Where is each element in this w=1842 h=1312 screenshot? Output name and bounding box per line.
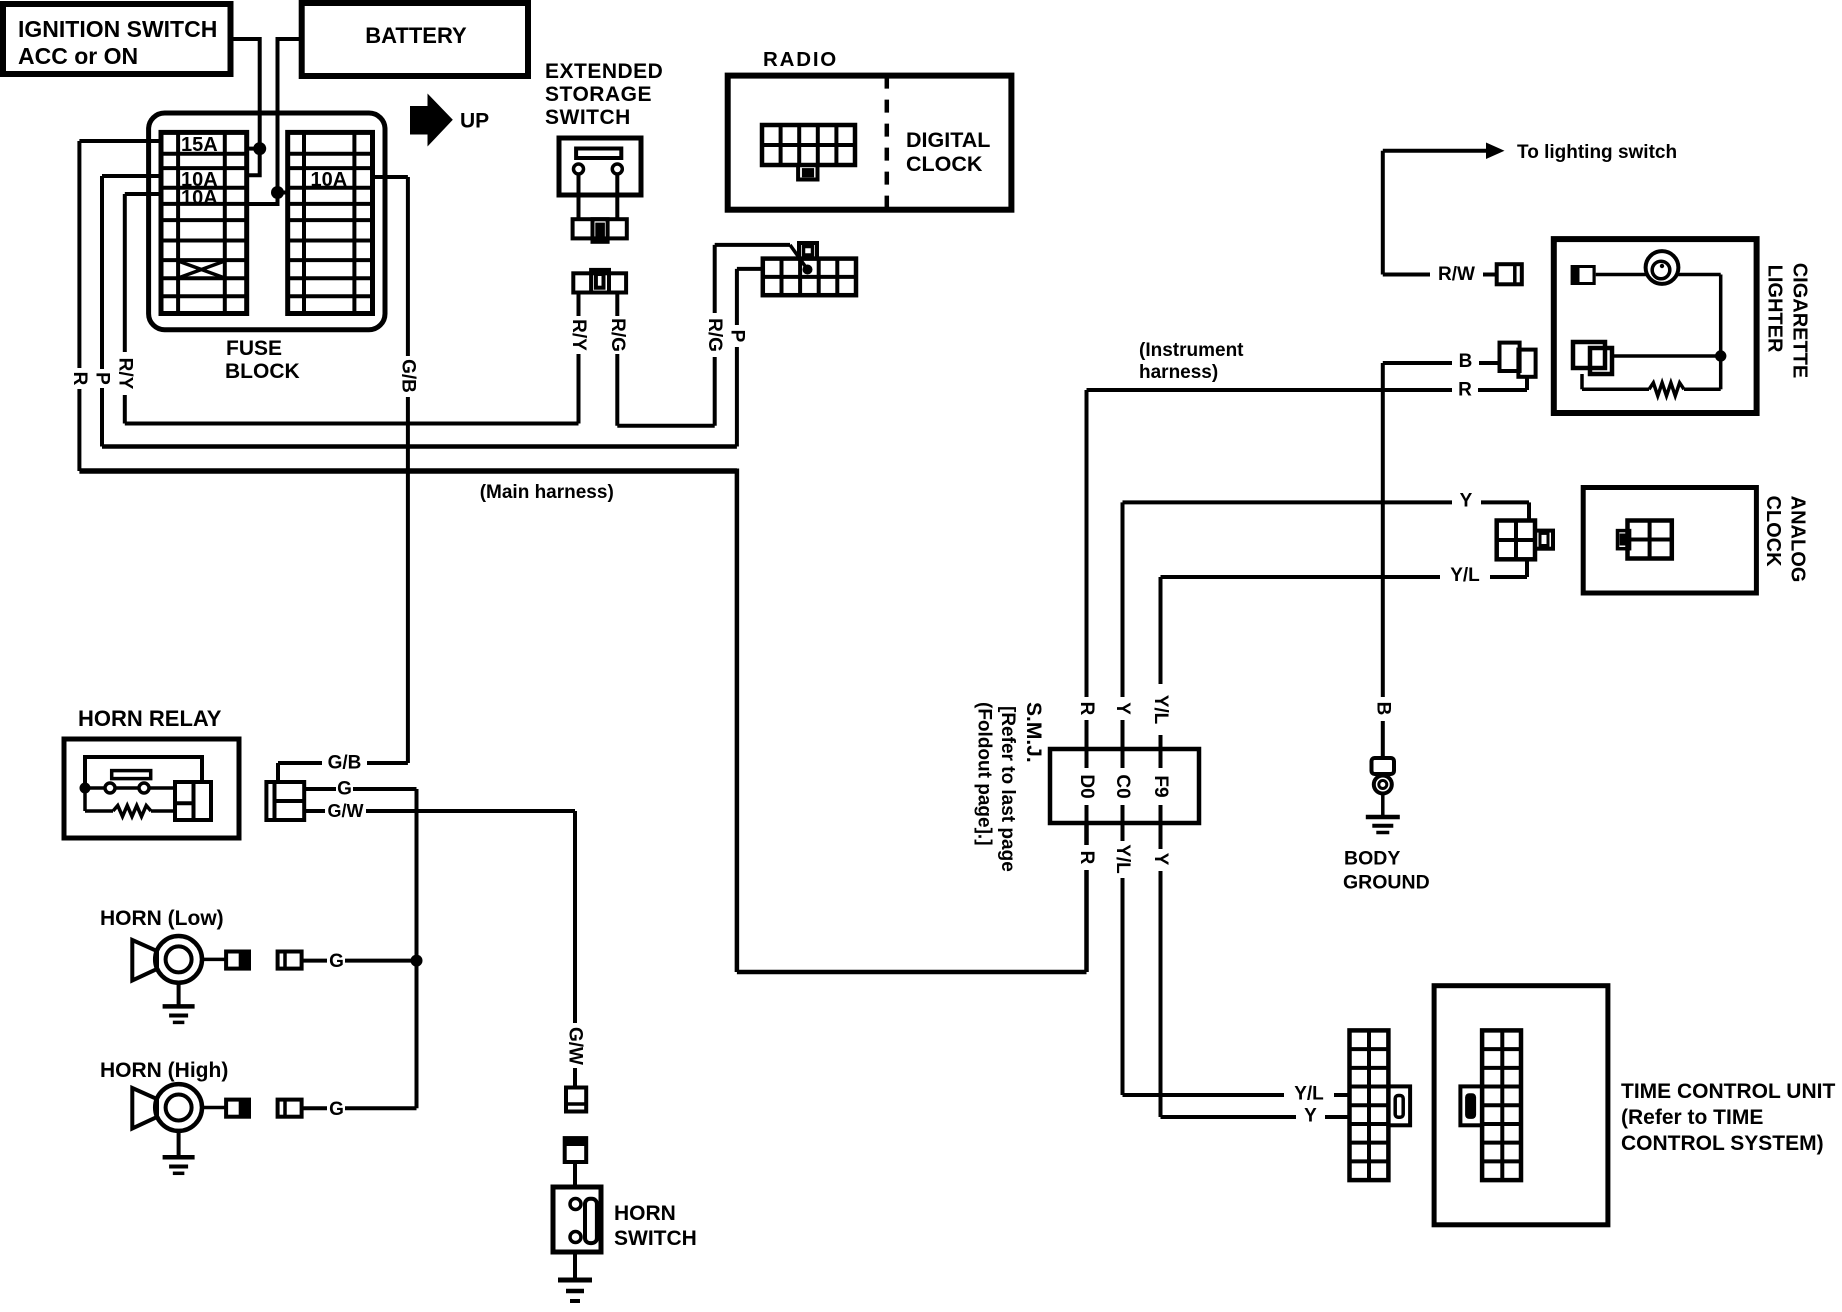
- horn low connector (horn side): [226, 952, 249, 969]
- label G/B (horn relay): [328, 753, 362, 774]
- radio connector pigtail dot: [803, 265, 813, 275]
- svg-text:STORAGE: STORAGE: [545, 83, 652, 106]
- svg-text:R/Y: R/Y: [114, 358, 135, 390]
- svg-text:BLOCK: BLOCK: [225, 360, 300, 383]
- horn relay coil resistor: [85, 788, 175, 817]
- label G/B: [397, 359, 418, 393]
- wire battery to fuse block: [247, 39, 302, 204]
- svg-text:LIGHTER: LIGHTER: [1764, 265, 1786, 353]
- analog clock connector tab: [1618, 531, 1630, 549]
- horn switch slot: [585, 1199, 597, 1243]
- svg-text:DIGITAL: DIGITAL: [906, 128, 990, 152]
- svg-text:G/W: G/W: [565, 1027, 586, 1065]
- svg-text:(Main harness): (Main harness): [480, 482, 614, 503]
- horn switch connector (harness side): [566, 1088, 586, 1112]
- connector B: [1500, 343, 1536, 377]
- label G (horn high): [329, 1099, 344, 1120]
- horn relay contact block: [175, 782, 211, 820]
- wire tap battery to right fuse column: [278, 191, 288, 195]
- time control unit box: [1434, 986, 1608, 1225]
- analog clock connector: [1628, 521, 1672, 559]
- battery box: [302, 3, 528, 76]
- fuse 15A label: [181, 134, 218, 156]
- label G (horn relay): [337, 779, 352, 800]
- label R/G (storage switch): [607, 318, 628, 352]
- radio box: [728, 76, 1012, 210]
- radio connector pigtail wire: [790, 245, 808, 270]
- svg-text:Y: Y: [1112, 702, 1133, 715]
- wire R/G from storage switch: [617, 245, 790, 426]
- fuse 10A label (row 4): [181, 187, 218, 209]
- wires switch to connector: [579, 174, 618, 219]
- wire G horn relay: [304, 789, 416, 961]
- horn relay box: [64, 739, 239, 838]
- wire Y to time control unit: [1161, 1115, 1350, 1119]
- connector (switch side): [573, 219, 627, 242]
- label G (horn low): [329, 951, 344, 972]
- wire G horn low: [302, 959, 417, 963]
- svg-text:Y: Y: [1304, 1106, 1317, 1127]
- wire R/Y from 10A fuse: [125, 194, 579, 424]
- svg-text:RADIO: RADIO: [763, 48, 838, 71]
- horn high connector (horn side): [226, 1100, 249, 1117]
- body ground symbol: [1366, 794, 1400, 833]
- cigarette lighter lamp connector: [1571, 265, 1596, 285]
- body ground terminal block: [1372, 758, 1395, 774]
- label R (above S.M.J.): [1076, 702, 1097, 716]
- svg-text:harness): harness): [1139, 362, 1218, 383]
- svg-text:R/G: R/G: [607, 318, 628, 352]
- to lighting switch label: [1517, 142, 1677, 163]
- S.M.J. pin D0: [1085, 749, 1089, 823]
- label R (lighter): [1458, 380, 1472, 401]
- wire Y to analog clock: [1123, 502, 1530, 520]
- ignition switch box: [3, 4, 231, 74]
- instrument harness label: [1139, 340, 1244, 383]
- S.M.J. pin C0: [1121, 749, 1125, 823]
- svg-text:TIME CONTROL UNIT: TIME CONTROL UNIT: [1621, 1080, 1835, 1103]
- wire element connector to junction: [1612, 354, 1721, 358]
- S.M.J. pin F9: [1159, 749, 1163, 823]
- body ground label: [1343, 848, 1430, 894]
- S.M.J. box: [1050, 749, 1199, 823]
- label R (main harness): [69, 372, 90, 386]
- wire Y/L to time control unit: [1123, 1093, 1350, 1097]
- wire Y/L to analog clock: [1161, 559, 1528, 577]
- horn low label: [100, 907, 224, 930]
- horn switch ground: [558, 1252, 592, 1301]
- svg-text:15A: 15A: [181, 134, 218, 156]
- svg-text:Y: Y: [1150, 853, 1171, 866]
- svg-text:P: P: [92, 372, 113, 385]
- wire G horn high: [302, 961, 417, 1109]
- svg-text:G/B: G/B: [328, 753, 362, 774]
- svg-text:HORN: HORN: [614, 1202, 676, 1225]
- extended storage switch label: [545, 60, 663, 129]
- wire horn high to connector: [202, 1106, 226, 1110]
- horn switch terminals: [570, 1199, 581, 1243]
- svg-text:R: R: [1076, 851, 1097, 865]
- junction dot (lighter): [1715, 350, 1726, 361]
- horn high ground: [163, 1131, 195, 1173]
- svg-text:C0: C0: [1112, 774, 1133, 798]
- horn relay terminal circles: [105, 783, 149, 793]
- svg-text:G: G: [329, 1099, 344, 1120]
- label Y/L (below S.M.J.): [1112, 844, 1133, 874]
- label R/Y (storage switch): [568, 319, 589, 351]
- wire R from 15A fuse: [79, 141, 737, 471]
- label R (below S.M.J.): [1076, 851, 1097, 865]
- svg-text:F9: F9: [1150, 775, 1171, 797]
- svg-text:To lighting switch: To lighting switch: [1517, 142, 1677, 163]
- horn relay connector: [266, 782, 304, 820]
- heating element resistor: [1582, 356, 1721, 396]
- svg-text:SWITCH: SWITCH: [545, 106, 631, 129]
- radio/clock dashed divider: [885, 76, 890, 210]
- horn relay coil loop: [85, 757, 202, 788]
- label R/G (radio): [704, 318, 725, 352]
- cigarette lighter box: [1554, 239, 1757, 413]
- horn low symbol: [132, 936, 202, 983]
- extended storage switch terminal circles: [574, 164, 623, 174]
- svg-text:CONTROL SYSTEM): CONTROL SYSTEM): [1621, 1132, 1824, 1155]
- cigarette lighter label: [1764, 263, 1811, 379]
- label B (body ground): [1372, 702, 1393, 716]
- horn switch label: [614, 1202, 697, 1250]
- time control unit label: [1621, 1080, 1835, 1155]
- svg-text:(Instrument: (Instrument: [1139, 340, 1244, 361]
- wire R main harness to S.M.J.: [737, 469, 1087, 973]
- radio harness connector key cell: [799, 243, 817, 259]
- body ground ring terminal: [1374, 776, 1392, 794]
- wire P to radio connector: [737, 269, 763, 447]
- label Y (clock): [1460, 491, 1473, 512]
- svg-text:ACC or ON: ACC or ON: [18, 43, 138, 69]
- connector (harness side): [573, 270, 626, 293]
- lighting switch arrowhead: [1486, 143, 1505, 160]
- wire G/B horn relay: [278, 763, 408, 782]
- svg-text:10A: 10A: [311, 169, 348, 191]
- analog clock box: [1583, 488, 1756, 594]
- fuse 10A label (right column): [311, 169, 348, 191]
- svg-text:Y: Y: [1460, 491, 1473, 512]
- label P (main harness): [92, 372, 113, 385]
- label P (radio): [726, 330, 747, 343]
- wire connector to horn switch: [573, 1162, 577, 1187]
- svg-text:R/G: R/G: [704, 318, 725, 352]
- svg-text:CLOCK: CLOCK: [906, 152, 983, 176]
- wire P from 10A fuse: [102, 176, 737, 447]
- fuse column left grid: [161, 132, 247, 313]
- svg-text:UP: UP: [460, 110, 489, 133]
- svg-text:EXTENDED: EXTENDED: [545, 60, 663, 83]
- svg-text:BODY: BODY: [1344, 848, 1400, 870]
- fuse column right grid: [288, 132, 373, 313]
- svg-text:(Refer to TIME: (Refer to TIME: [1621, 1106, 1763, 1129]
- junction dot G: [411, 955, 423, 967]
- wire G/B from right fuse column: [373, 177, 408, 763]
- fuse block label: [225, 337, 300, 383]
- time control harness connector grid: [1350, 1030, 1389, 1180]
- label Y (time control): [1304, 1106, 1317, 1127]
- S.M.J. note text: [974, 702, 1046, 872]
- time control unit connector tab: [1460, 1086, 1482, 1125]
- wire R/Y to main harness: [577, 291, 581, 423]
- extended storage switch box: [559, 138, 641, 195]
- svg-text:B: B: [1372, 702, 1393, 716]
- wire connector to bulb: [1596, 273, 1648, 277]
- wire G/W to horn switch connector: [573, 1068, 577, 1087]
- svg-text:G/B: G/B: [397, 359, 418, 393]
- fuse block outline: [149, 113, 385, 330]
- wire ignition switch to fuse block: [231, 39, 260, 175]
- S.M.J. C0 wire (below): [1121, 823, 1125, 1095]
- label R/W: [1438, 264, 1475, 285]
- horn high label: [100, 1059, 228, 1082]
- horn relay junction dot: [80, 783, 91, 794]
- fuse 10A label (row 3): [181, 169, 218, 191]
- svg-text:IGNITION SWITCH: IGNITION SWITCH: [18, 16, 217, 42]
- label B (lighter): [1459, 351, 1473, 372]
- svg-text:B: B: [1459, 351, 1473, 372]
- illumination bulb: [1646, 251, 1679, 284]
- label R/Y (main harness): [114, 358, 135, 390]
- svg-text:Y/L: Y/L: [1112, 844, 1133, 874]
- svg-text:CIGARETTE: CIGARETTE: [1789, 263, 1811, 379]
- analog clock label: [1762, 495, 1809, 582]
- radio harness connector grid: [763, 259, 856, 296]
- radio connector grid (unit side): [762, 125, 855, 165]
- time control unit connector grid: [1482, 1030, 1521, 1180]
- radio connector key cell (black): [798, 165, 817, 180]
- extended storage switch slot: [576, 149, 621, 159]
- horn relay slot: [112, 771, 151, 779]
- horn relay contact wires: [85, 786, 175, 790]
- S.M.J. C0 wire (above): [1121, 502, 1125, 749]
- wire B to cigarette lighter: [1383, 361, 1500, 365]
- radio label: [763, 48, 838, 71]
- fuse spare X mark: [178, 261, 225, 278]
- svg-text:S.M.J.: S.M.J.: [1022, 702, 1045, 763]
- junction dot ignition/15A: [253, 142, 266, 155]
- wire R/W: [1383, 273, 1497, 277]
- label Y/L (clock): [1450, 565, 1480, 586]
- label G/W (horn switch): [565, 1027, 586, 1065]
- svg-text:CLOCK: CLOCK: [1762, 495, 1784, 567]
- wire G/W horn relay: [304, 811, 575, 1023]
- horn high connector (harness side): [278, 1100, 302, 1117]
- svg-text:R: R: [1458, 380, 1472, 401]
- svg-text:R: R: [1076, 702, 1097, 716]
- svg-text:Y/L: Y/L: [1450, 565, 1480, 586]
- svg-text:P: P: [726, 330, 747, 343]
- svg-text:Y/L: Y/L: [1150, 695, 1171, 725]
- label Y (above S.M.J.): [1112, 702, 1133, 715]
- svg-text:R/W: R/W: [1438, 264, 1475, 285]
- S.M.J. F9 wire (below): [1159, 823, 1163, 1117]
- svg-text:ANALOG: ANALOG: [1787, 496, 1809, 583]
- svg-text:GROUND: GROUND: [1343, 872, 1430, 894]
- analog clock harness connector: [1497, 521, 1535, 560]
- svg-text:(Foldout page].]: (Foldout page].]: [974, 702, 995, 846]
- svg-text:G: G: [337, 779, 352, 800]
- svg-text:FUSE: FUSE: [226, 337, 282, 360]
- wire R to cigarette lighter: [1087, 377, 1528, 390]
- svg-text:[Refer to last page: [Refer to last page: [997, 706, 1018, 872]
- wire bulb to junction: [1677, 275, 1721, 357]
- wire tap to 15A fuse: [247, 147, 260, 151]
- horn switch connector (switch side): [565, 1138, 587, 1162]
- svg-text:HORN RELAY: HORN RELAY: [78, 706, 222, 731]
- label Y/L (above S.M.J.): [1150, 695, 1171, 725]
- horn low connector (harness side): [278, 952, 302, 969]
- label G/W (horn relay): [328, 801, 364, 821]
- wire B to body ground: [1381, 363, 1385, 758]
- svg-text:Y/L: Y/L: [1294, 1084, 1324, 1105]
- svg-text:HORN (Low): HORN (Low): [100, 907, 224, 930]
- connector R/W: [1497, 264, 1522, 284]
- svg-text:SWITCH: SWITCH: [614, 1227, 697, 1250]
- digital clock label: [906, 128, 990, 176]
- svg-text:G/W: G/W: [328, 801, 364, 821]
- label Y/L (time control): [1294, 1084, 1324, 1105]
- cigarette lighter element connector: [1573, 342, 1612, 374]
- horn high symbol: [132, 1084, 202, 1131]
- horn switch box: [553, 1187, 601, 1252]
- svg-text:G: G: [329, 951, 344, 972]
- horn relay label: [78, 706, 222, 731]
- svg-text:R: R: [69, 372, 90, 386]
- time control harness connector tab: [1388, 1086, 1410, 1125]
- wire horn low to connector: [202, 958, 226, 962]
- svg-text:10A: 10A: [181, 187, 218, 209]
- svg-text:D0: D0: [1076, 774, 1097, 798]
- main harness label: [480, 482, 614, 503]
- S.M.J. F9 wire (above): [1159, 577, 1163, 749]
- analog clock harness connector tab: [1535, 531, 1553, 549]
- label Y (below S.M.J.): [1150, 853, 1171, 866]
- junction dot battery: [271, 186, 284, 199]
- svg-text:R/Y: R/Y: [568, 319, 589, 351]
- horn low ground: [163, 983, 195, 1023]
- S.M.J. D0 wire (above): [1085, 390, 1089, 749]
- svg-text:BATTERY: BATTERY: [365, 23, 467, 48]
- UP direction arrow: [410, 94, 489, 147]
- svg-text:HORN (High): HORN (High): [100, 1059, 228, 1082]
- wire to lighting switch: [1383, 151, 1487, 275]
